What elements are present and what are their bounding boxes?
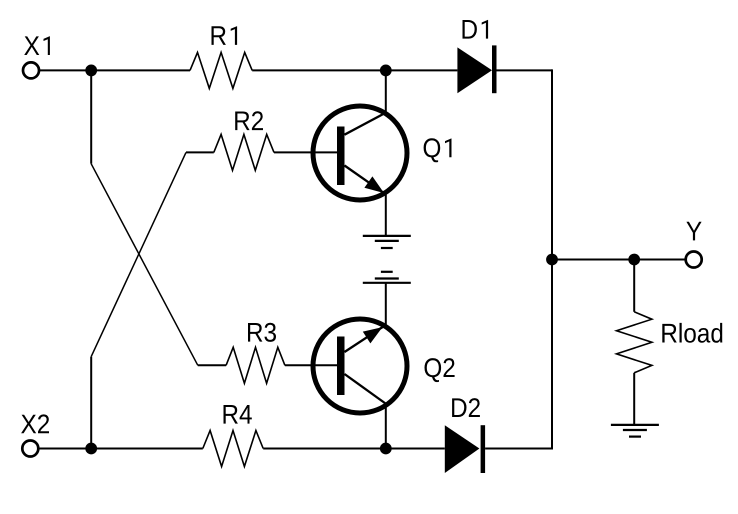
wire D2 to corner bbox=[485, 448, 552, 450]
wire X2 to R4 bbox=[39, 448, 203, 450]
wire Rload to ground bbox=[633, 373, 635, 425]
resistor R1 bbox=[190, 52, 252, 88]
label Rload bbox=[662, 323, 722, 343]
node junction X1 bbox=[85, 65, 97, 77]
transistor Q2 bbox=[313, 319, 407, 413]
node junction Rload bbox=[628, 254, 640, 266]
wire Q1 collector bbox=[385, 70, 387, 113]
resistor Rload bbox=[617, 312, 652, 373]
wire R3 to Q2 base bbox=[285, 364, 338, 366]
label R3 bbox=[248, 323, 276, 342]
label Q2 bbox=[425, 358, 455, 382]
diode D2 bbox=[445, 425, 485, 473]
label X1 bbox=[24, 36, 50, 55]
terminal Y bbox=[686, 252, 702, 268]
label Y bbox=[686, 222, 701, 241]
wire R1 to D1 bbox=[252, 69, 457, 71]
label R1 bbox=[212, 26, 238, 45]
node junction Q1 collector bbox=[380, 65, 392, 77]
terminal X2 bbox=[22, 441, 38, 457]
label Q1 bbox=[424, 138, 452, 162]
wire Q2 collector bbox=[385, 404, 387, 449]
ground below Rload bbox=[611, 425, 659, 437]
wire corner to R2 bbox=[186, 151, 214, 153]
label R2 bbox=[235, 111, 263, 130]
label D1 bbox=[463, 20, 489, 39]
transistor Q1 bbox=[313, 106, 407, 200]
label X2 bbox=[21, 414, 49, 433]
wire left vertical lower bbox=[90, 357, 92, 449]
wire R4 to D2 bbox=[263, 448, 445, 450]
wire right vertical rail bbox=[551, 69, 553, 449]
wire D1 to corner bbox=[497, 69, 553, 71]
wire ground to Q2 emitter bbox=[385, 283, 387, 325]
diode D1 bbox=[457, 45, 496, 93]
terminal X1 bbox=[23, 62, 39, 78]
wire Q1 emitter to ground bbox=[385, 194, 387, 237]
resistor R3 bbox=[226, 347, 285, 383]
resistor R4 bbox=[203, 431, 263, 467]
ground above Q2 (inverted) bbox=[363, 272, 411, 283]
node junction X2 bbox=[85, 443, 97, 455]
wire output rail to Y bbox=[552, 259, 686, 261]
label D2 bbox=[452, 398, 480, 417]
wire X1 to R1 bbox=[40, 69, 190, 71]
wire diagonal X2 to R2 bbox=[91, 152, 186, 356]
resistor R2 bbox=[214, 134, 274, 170]
wire Y rail to Rload bbox=[633, 260, 635, 312]
wire corner to R3 bbox=[198, 364, 226, 366]
label R4 bbox=[224, 405, 252, 424]
ground below Q1 bbox=[363, 236, 411, 248]
node junction Q2 collector bbox=[380, 443, 392, 455]
wire R2 to Q1 base bbox=[274, 151, 338, 153]
node junction output rail bbox=[546, 254, 558, 266]
wire diagonal X1 to R3 bbox=[91, 164, 198, 365]
wire left vertical upper bbox=[90, 70, 92, 163]
